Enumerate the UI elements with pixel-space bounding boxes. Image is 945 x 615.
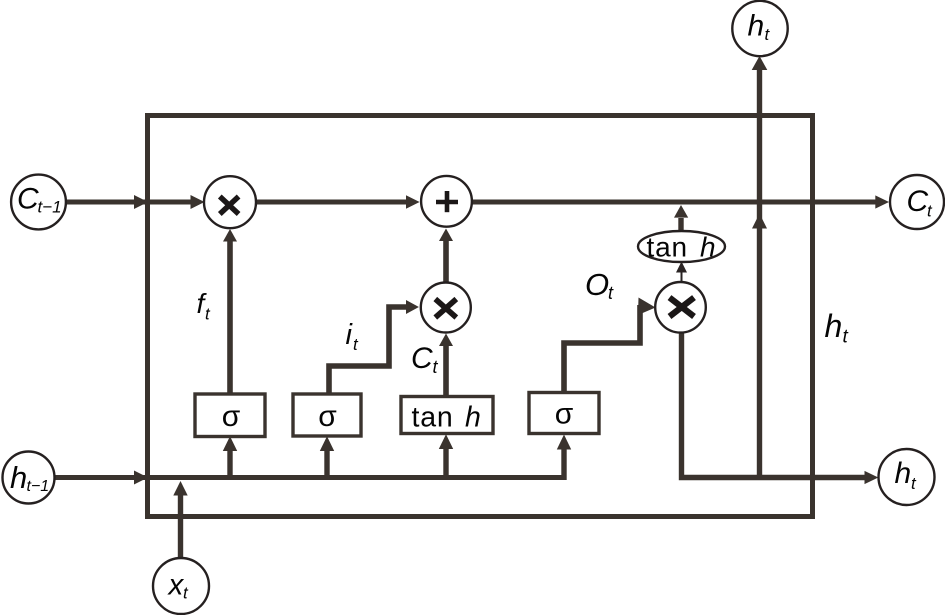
- wire Ct-tilde: tanh box up to M2: [443, 345, 449, 395]
- svg-text:h: h: [895, 457, 912, 490]
- wire ft: sigma1 up to M1: [227, 240, 233, 395]
- arrowhead into node Ct: [875, 195, 889, 208]
- wire Ct-1 to left border: [65, 200, 192, 205]
- svg-text:h: h: [700, 232, 716, 263]
- node xt: [153, 558, 209, 614]
- svg-text:h: h: [10, 460, 27, 495]
- wire M1 to plus A1: [255, 200, 407, 205]
- sigma box 1: [195, 394, 265, 437]
- svg-text:h: h: [748, 10, 765, 43]
- wire Ot: sigma4 up elbow to M3: [564, 305, 640, 394]
- wire ht-1 line to sigma4 corner: [54, 475, 564, 480]
- op multiply M1: [204, 176, 256, 228]
- svg-text:h: h: [825, 308, 843, 344]
- svg-text:x: x: [167, 569, 185, 602]
- stub arrow into tanh box: [443, 448, 448, 478]
- svg-text:σ: σ: [318, 400, 337, 433]
- svg-text:O: O: [585, 267, 609, 302]
- svg-text:h: h: [465, 402, 481, 434]
- svg-text:σ: σ: [222, 400, 241, 433]
- wire M2 up to A1: [443, 240, 449, 284]
- svg-text:tan: tan: [647, 232, 688, 263]
- wire tanh ellipse up to C line: [678, 218, 683, 231]
- wire thin M3 to tanh ellipse: [681, 268, 683, 283]
- cell boundary rectangle: [148, 116, 813, 517]
- wire A1 to Ct output: [470, 200, 877, 205]
- sigma box 4: [529, 393, 599, 434]
- tanh box: [401, 397, 493, 434]
- node Ct-1: [11, 175, 66, 230]
- arrowhead thin into tanh ellipse: [676, 262, 687, 273]
- svg-text:C: C: [17, 183, 39, 216]
- node ht top: [732, 1, 787, 56]
- arrowhead Ot into M3: [638, 298, 656, 316]
- svg-text:t−1: t−1: [27, 478, 50, 495]
- node Ct: [890, 175, 944, 229]
- arrowhead tanh output into C line: [674, 205, 688, 218]
- arrowhead at left border on h line: [134, 471, 148, 485]
- arrowhead at left border on C line: [134, 195, 148, 209]
- wire it: sigma2 up elbow to M2: [329, 307, 406, 395]
- svg-text:C: C: [907, 185, 929, 218]
- svg-text:t−1: t−1: [38, 198, 62, 217]
- op plus A1: [421, 176, 472, 227]
- op multiply M3: [655, 282, 706, 333]
- wire ht up line to node ht top: [757, 68, 762, 478]
- arrowhead into M2 from below: [439, 334, 453, 347]
- tanh ellipse: [638, 231, 725, 262]
- wire corner up into sigma4: [561, 449, 566, 480]
- svg-text:tan: tan: [412, 402, 454, 434]
- arrowhead on ht line below C line: [752, 214, 767, 229]
- arrowhead ft into M1: [223, 229, 237, 242]
- arrowhead into sigma4: [557, 435, 571, 450]
- arrowhead xt into h line: [173, 481, 187, 496]
- op multiply M2: [421, 283, 471, 333]
- stub arrow into sigma2: [324, 450, 329, 478]
- arrowhead into node ht top: [752, 56, 768, 70]
- sigma box 2: [293, 394, 361, 436]
- wire M3 output down and right to node ht right: [682, 332, 867, 478]
- stub arrow into sigma1: [227, 450, 232, 478]
- node ht-1: [3, 452, 55, 504]
- svg-text:σ: σ: [555, 398, 574, 431]
- arrowhead it into M2: [406, 300, 419, 314]
- arrowhead into plus A1: [406, 195, 420, 208]
- svg-text:t: t: [843, 327, 849, 348]
- arrowhead into node ht right: [865, 471, 879, 484]
- svg-text:C: C: [411, 342, 433, 375]
- wire xt up into h line: [178, 494, 183, 559]
- arrowhead into A1 from below: [439, 229, 453, 242]
- arrowhead into multiply M1: [191, 195, 205, 209]
- node ht right: [879, 449, 935, 505]
